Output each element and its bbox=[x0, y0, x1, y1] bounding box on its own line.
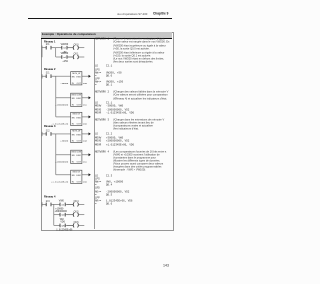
wire to MOV_R EN N3 bbox=[56, 174, 71, 176]
box MOV_W N2 bbox=[60, 72, 90, 85]
svg-text:-200000000: -200000000 bbox=[55, 211, 68, 213]
LIST NETWORK 3 block bbox=[95, 119, 109, 122]
network label Reseau 1 bbox=[44, 39, 56, 43]
svg-text:ENO: ENO bbox=[77, 155, 82, 157]
left power rail N2 bbox=[41, 74, 43, 78]
network label Reseau 3 bbox=[44, 124, 56, 128]
box MOV_DW N2 bbox=[55, 93, 91, 106]
wire to MOV_R EN N2 bbox=[56, 116, 71, 118]
svg-text:MOV_R: MOV_R bbox=[73, 172, 81, 174]
branch trunk N3 bbox=[55, 134, 57, 175]
svg-text:I2.3: I2.3 bbox=[46, 201, 51, 203]
svg-text:I2.2: I2.2 bbox=[46, 130, 51, 132]
coil Q0.4 bbox=[67, 201, 84, 206]
svg-text:VD6: VD6 bbox=[83, 123, 88, 126]
svg-text:ENO: ENO bbox=[77, 175, 82, 177]
network label Reseau 2 bbox=[44, 67, 56, 71]
compare contact VD6 >=R 1.012345E+06 bbox=[54, 222, 74, 232]
contact I2.1 N2 bbox=[42, 73, 71, 78]
svg-text:ENO: ENO bbox=[77, 134, 82, 136]
page number bbox=[163, 263, 169, 268]
wire to MOV_DW EN N3 bbox=[56, 154, 71, 156]
LIST NETWORK 4 block bbox=[95, 151, 109, 154]
header rule bbox=[28, 18, 172, 19]
coil Q0.1 bbox=[67, 54, 84, 59]
svg-text:VW0: VW0 bbox=[83, 140, 88, 143]
svg-text:MOV_W: MOV_W bbox=[72, 73, 80, 75]
svg-text:Réseau 2: Réseau 2 bbox=[44, 67, 56, 71]
svg-text:ENO: ENO bbox=[77, 117, 82, 119]
svg-text:ENO: ENO bbox=[77, 77, 82, 79]
LIST NETWORK 2 block bbox=[95, 91, 109, 94]
svg-text:Q0.5: Q0.5 bbox=[74, 211, 80, 213]
coil Q0.5 bbox=[67, 211, 84, 216]
wire to MOV_DW EN N2 bbox=[56, 97, 71, 99]
svg-text:Q0.4: Q0.4 bbox=[74, 201, 80, 203]
svg-text:VW0: VW0 bbox=[59, 201, 65, 203]
branch junction N4 bbox=[53, 204, 55, 225]
title bar bbox=[41, 32, 172, 39]
compare contact -200000000 >=D VD2 bbox=[54, 211, 74, 221]
svg-text:Réseau 4: Réseau 4 bbox=[44, 195, 56, 199]
svg-text:>=D: >=D bbox=[61, 214, 65, 217]
svg-text:VD2: VD2 bbox=[60, 218, 65, 221]
svg-text:MOV_DW: MOV_DW bbox=[72, 152, 81, 154]
contact I2.2 N3 bbox=[42, 130, 71, 135]
box MOV_R N3 bbox=[51, 170, 91, 183]
box MOV_W N3 bbox=[60, 129, 90, 142]
coil Q0.6 bbox=[67, 222, 84, 227]
svg-text:VD2: VD2 bbox=[83, 104, 88, 107]
svg-text:>=I: >=I bbox=[63, 47, 66, 50]
example box frame bbox=[41, 32, 173, 231]
svg-text:1.012345E+06: 1.012345E+06 bbox=[56, 229, 73, 232]
header running title bbox=[117, 13, 147, 16]
svg-text:Q0.0: Q0.0 bbox=[74, 44, 80, 46]
svg-text:>=I: >=I bbox=[61, 203, 64, 206]
compare contact VW0 >=I +10000 bbox=[55, 201, 73, 211]
svg-text:I2.1: I2.1 bbox=[46, 73, 51, 75]
left power rail N1 bbox=[41, 46, 43, 58]
box MOV_R N2 bbox=[51, 112, 91, 125]
LIST NETWORK 1 block bbox=[95, 38, 109, 41]
svg-text:-30000: -30000 bbox=[60, 82, 69, 85]
svg-text:ENO: ENO bbox=[77, 98, 82, 100]
column divider between LAD and LIST bbox=[93, 39, 96, 229]
svg-text:MOV_R: MOV_R bbox=[73, 114, 81, 116]
svg-text:VW0: VW0 bbox=[83, 82, 88, 85]
compare contact VW200 >=I +50 bbox=[61, 44, 74, 54]
svg-text:Q0.1: Q0.1 bbox=[74, 54, 80, 56]
svg-text:+30000: +30000 bbox=[60, 140, 69, 143]
svg-text:<=I: <=I bbox=[63, 56, 66, 59]
svg-text:MOV_W: MOV_W bbox=[72, 131, 80, 133]
svg-text:+1.012345E+06: +1.012345E+06 bbox=[51, 181, 69, 184]
svg-text:+200000000: +200000000 bbox=[55, 161, 69, 164]
network label Reseau 4 bbox=[44, 195, 56, 199]
svg-text:>=R: >=R bbox=[61, 224, 65, 227]
svg-text:-200000000: -200000000 bbox=[55, 104, 69, 107]
title text bbox=[42, 33, 96, 36]
svg-text:Réseau 3: Réseau 3 bbox=[44, 124, 56, 128]
coil Q0.0 bbox=[67, 44, 84, 49]
branch junction N1 bbox=[56, 48, 62, 57]
left power rail N3 bbox=[41, 132, 43, 136]
svg-text:VD6: VD6 bbox=[60, 222, 65, 224]
svg-text:Réseau 1: Réseau 1 bbox=[44, 39, 56, 43]
svg-text:VD6: VD6 bbox=[83, 181, 88, 184]
svg-text:MOV_DW: MOV_DW bbox=[72, 95, 81, 97]
svg-text:VW200: VW200 bbox=[61, 53, 69, 55]
branch trunk N2 bbox=[55, 76, 57, 117]
box MOV_DW N3 bbox=[55, 150, 91, 163]
svg-text:VD2: VD2 bbox=[83, 161, 88, 164]
left power rail N4 bbox=[41, 202, 43, 206]
contact I2.3 N4 bbox=[42, 201, 60, 206]
header chapter label bbox=[153, 12, 168, 16]
svg-text:+150: +150 bbox=[62, 60, 68, 63]
contact I2.1 N1 bbox=[42, 44, 62, 49]
compare contact VW200 <=I +150 bbox=[61, 53, 74, 63]
svg-text:VW200: VW200 bbox=[61, 44, 69, 46]
svg-text:I2.1: I2.1 bbox=[46, 44, 51, 46]
svg-text:Q0.6: Q0.6 bbox=[74, 222, 80, 224]
